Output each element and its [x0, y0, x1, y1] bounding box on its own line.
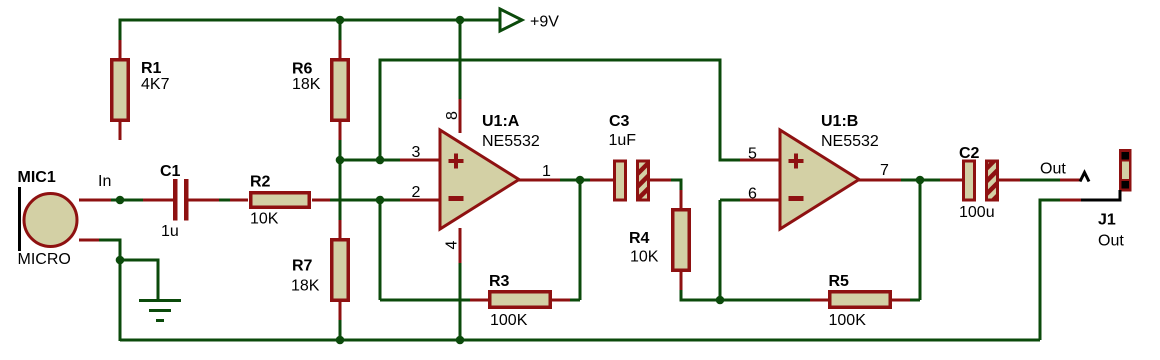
wire feedback2 to R5 [720, 299, 810, 302]
pin U1:B 7 [858, 179, 901, 182]
pin U1:A 3 [400, 159, 440, 162]
resistor R5 [830, 292, 891, 308]
U1:A plus [449, 154, 464, 169]
svg-text:+9V: +9V [530, 14, 559, 31]
svg-text:U1:B: U1:B [821, 113, 858, 130]
wire mic lower corner [99, 240, 120, 260]
node output B [916, 176, 925, 185]
wire pin3 net [340, 159, 400, 162]
pin R7 top [339, 220, 342, 238]
svg-text:7: 7 [880, 162, 889, 179]
node In [116, 196, 125, 205]
pin mic upper [79, 199, 111, 202]
svg-text:C1: C1 [160, 163, 181, 180]
resistor R7 [332, 240, 349, 301]
pin U1:B 6 [740, 199, 780, 202]
wire R6 top [339, 20, 342, 40]
op-amp U1:B [780, 130, 859, 229]
pin C3 right [650, 179, 671, 182]
svg-text:In: In [98, 173, 111, 190]
svg-text:3: 3 [412, 144, 421, 161]
wire pin6 horizontal [720, 199, 740, 202]
svg-text:100K: 100K [829, 312, 867, 329]
pin R1 top [119, 40, 122, 58]
node top rail R6 [336, 16, 345, 25]
pin U1:B 5 [740, 159, 780, 162]
wire pin6 vertical [719, 200, 722, 300]
pin R2 right [312, 199, 330, 202]
pin R5 left [810, 299, 828, 302]
pin R6 top [339, 40, 342, 58]
node pin4 rail [456, 336, 465, 345]
wire R6 bottom to node [339, 140, 342, 160]
svg-text:C3: C3 [609, 113, 630, 130]
svg-text:J1: J1 [1098, 212, 1116, 229]
wire output A to C3 [560, 179, 590, 182]
resistor R4 [673, 210, 690, 271]
svg-text:Out: Out [1098, 233, 1124, 250]
node bias pin3 [376, 156, 385, 165]
svg-text:NE5532: NE5532 [482, 133, 540, 150]
svg-text:100u: 100u [959, 204, 995, 221]
wire bias rail to U1:B pin5 [380, 60, 740, 160]
svg-text:100K: 100K [490, 312, 528, 329]
wire bottom ground rail [120, 339, 1040, 342]
svg-text:8: 8 [444, 111, 461, 120]
wire output B vertical [919, 180, 922, 300]
capacitor C3 [615, 161, 649, 200]
node top rail pin8 [456, 16, 465, 25]
wire pin2 net horizontal [330, 199, 400, 202]
svg-text:R7: R7 [292, 258, 313, 275]
pin R2 left [230, 199, 248, 202]
pin R4 top [680, 190, 683, 208]
wire R7 bottom to rail [339, 320, 342, 340]
wire left vertical down to bottom rail [119, 260, 122, 341]
node output A [576, 176, 585, 185]
wire ground branch [120, 260, 158, 300]
svg-text:MICRO: MICRO [18, 251, 71, 268]
pin U1:A 8 [459, 99, 462, 133]
op-amp U1:A [440, 130, 519, 229]
pin R5 right [892, 299, 910, 302]
wire C1 to R2 [219, 199, 230, 202]
wire J1 lower to ground corner [1040, 200, 1060, 340]
wire U1:A pin8 vertical [459, 20, 462, 99]
capacitor C2 [964, 161, 998, 200]
pin U1:A 1 [518, 179, 560, 182]
svg-text:U1:A: U1:A [482, 113, 520, 130]
pin C2 left [940, 179, 962, 182]
pin U1:A 2 [400, 199, 440, 202]
U1:A minus [449, 196, 464, 201]
pin U1:A 4 [459, 228, 462, 263]
wire C3 to R4 corner [671, 180, 681, 190]
wire R5 right corner [910, 299, 920, 302]
wire pin2 down to feedback [379, 200, 382, 300]
svg-text:C2: C2 [959, 145, 980, 162]
U1:B plus [789, 154, 804, 169]
svg-text:5: 5 [748, 146, 757, 163]
node feedback B [716, 296, 725, 305]
svg-text:R6: R6 [292, 61, 313, 78]
svg-text:R4: R4 [629, 230, 650, 247]
node mic ground [116, 256, 125, 265]
power +9V terminal [500, 9, 522, 31]
svg-text:R3: R3 [489, 273, 510, 290]
resistor R2 [251, 193, 310, 208]
svg-text:1u: 1u [161, 223, 179, 240]
node R7 rail [336, 336, 345, 345]
svg-text:Out: Out [1040, 161, 1066, 178]
wire feedback left to R3 [380, 299, 470, 302]
pin J1 upper [1060, 179, 1081, 182]
connector J1 [1119, 149, 1132, 192]
pin mic lower [79, 239, 99, 242]
capacitor C1 [173, 179, 189, 221]
node pin2 [376, 196, 385, 205]
resistor R6 [332, 60, 349, 121]
svg-text:18K: 18K [292, 76, 321, 93]
pin C1 left [143, 199, 173, 202]
pin R3 right [552, 299, 570, 302]
J1 black stub wire [1081, 190, 1120, 200]
wire C2 to J1 [1020, 179, 1060, 182]
pin C1 right [188, 199, 219, 202]
pin C2 right [998, 179, 1020, 182]
microphone MIC1 [24, 194, 77, 247]
svg-text:10K: 10K [630, 249, 659, 266]
resistor R1 [112, 60, 129, 121]
pin C3 left [590, 179, 613, 182]
svg-text:R5: R5 [829, 273, 850, 290]
svg-text:1uF: 1uF [609, 132, 637, 149]
svg-text:4K7: 4K7 [141, 76, 170, 93]
wire R6/R7 node down to R7 [339, 160, 342, 220]
U1:B minus [789, 196, 804, 201]
svg-text:6: 6 [748, 186, 757, 203]
node R6/R7 [336, 156, 345, 165]
svg-text:R2: R2 [250, 174, 271, 191]
wire R4 bottom corner [681, 290, 720, 300]
pin R7 bottom [339, 302, 342, 320]
svg-text:10K: 10K [250, 211, 279, 228]
pin R3 left [470, 299, 488, 302]
svg-text:1: 1 [542, 163, 551, 180]
wire output A vertical [579, 180, 582, 300]
svg-text:18K: 18K [291, 278, 320, 295]
svg-text:MIC1: MIC1 [18, 169, 56, 186]
wire output B to C2 [901, 179, 940, 182]
svg-text:NE5532: NE5532 [821, 133, 879, 150]
wire mic upper to C1 (In net) [111, 199, 143, 202]
pin R6 bottom [339, 122, 342, 140]
terminal caret [1080, 173, 1089, 182]
pin R1 bottom [119, 122, 122, 140]
svg-text:R1: R1 [141, 60, 162, 77]
ground symbol [139, 301, 181, 321]
wire U1:A pin4 down [459, 263, 462, 340]
pin J1 lower [1060, 199, 1081, 202]
pin R4 bottom [680, 272, 683, 290]
svg-text:4: 4 [444, 241, 461, 250]
wire R3 right to output vertical [570, 299, 580, 302]
mic bar [18, 187, 21, 251]
wire top rail [120, 20, 500, 140]
svg-text:2: 2 [412, 184, 421, 201]
resistor R3 [490, 292, 551, 308]
